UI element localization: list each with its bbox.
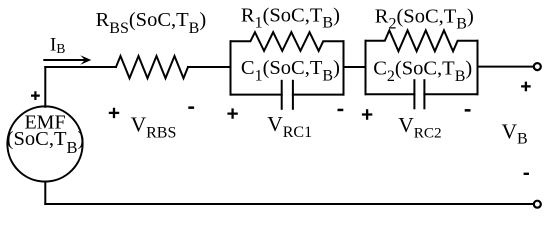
svg-text:RBS(SoC,TB): RBS(SoC,TB)	[96, 9, 207, 37]
wire	[188, 66, 231, 68]
polarity + (VRC2)	[362, 109, 372, 119]
svg-text:VRC2: VRC2	[398, 113, 441, 142]
wire (box1 left edge)	[230, 41, 232, 94]
resistor R2	[366, 30, 478, 51]
wire	[45, 203, 533, 205]
wire (box1 right edge)	[343, 41, 345, 94]
polarity + (VRC1)	[227, 108, 237, 118]
voltage source EMF	[7, 106, 82, 181]
capacitor C1	[231, 81, 344, 109]
wire	[44, 182, 46, 205]
polarity - (VRC2)	[465, 109, 471, 112]
polarity + (VRBS)	[109, 108, 119, 118]
resistor RBS	[116, 56, 188, 78]
svg-text:VB: VB	[502, 120, 528, 148]
svg-text:R2(SoC,TB): R2(SoC,TB)	[375, 5, 474, 32]
svg-text:VRBS: VRBS	[131, 113, 177, 142]
wire	[344, 66, 366, 68]
svg-text:(SoC,TB): (SoC,TB)	[7, 128, 85, 157]
svg-text:R1(SoC,TB): R1(SoC,TB)	[241, 4, 340, 31]
svg-text:VRC1: VRC1	[267, 112, 312, 141]
svg-text:IB: IB	[50, 34, 65, 56]
wire (box2 left edge)	[365, 41, 367, 94]
terminal (bottom right)	[534, 201, 541, 208]
svg-text:C1(SoC,TB): C1(SoC,TB)	[241, 57, 340, 85]
polarity - (VRBS)	[188, 106, 194, 109]
wire (box2 right edge)	[477, 41, 479, 94]
svg-text:C2(SoC,TB): C2(SoC,TB)	[373, 57, 472, 85]
terminal (top right)	[534, 63, 541, 70]
polarity - (VB)	[524, 173, 529, 175]
polarity - (VRC1)	[338, 109, 344, 112]
current arrow IB	[44, 55, 91, 64]
wire	[44, 67, 46, 107]
wire	[478, 66, 534, 68]
polarity + (VB)	[521, 82, 531, 92]
capacitor C2	[366, 80, 478, 108]
wire	[45, 66, 116, 68]
resistor R1	[231, 32, 344, 51]
polarity + (EMF)	[31, 91, 40, 100]
